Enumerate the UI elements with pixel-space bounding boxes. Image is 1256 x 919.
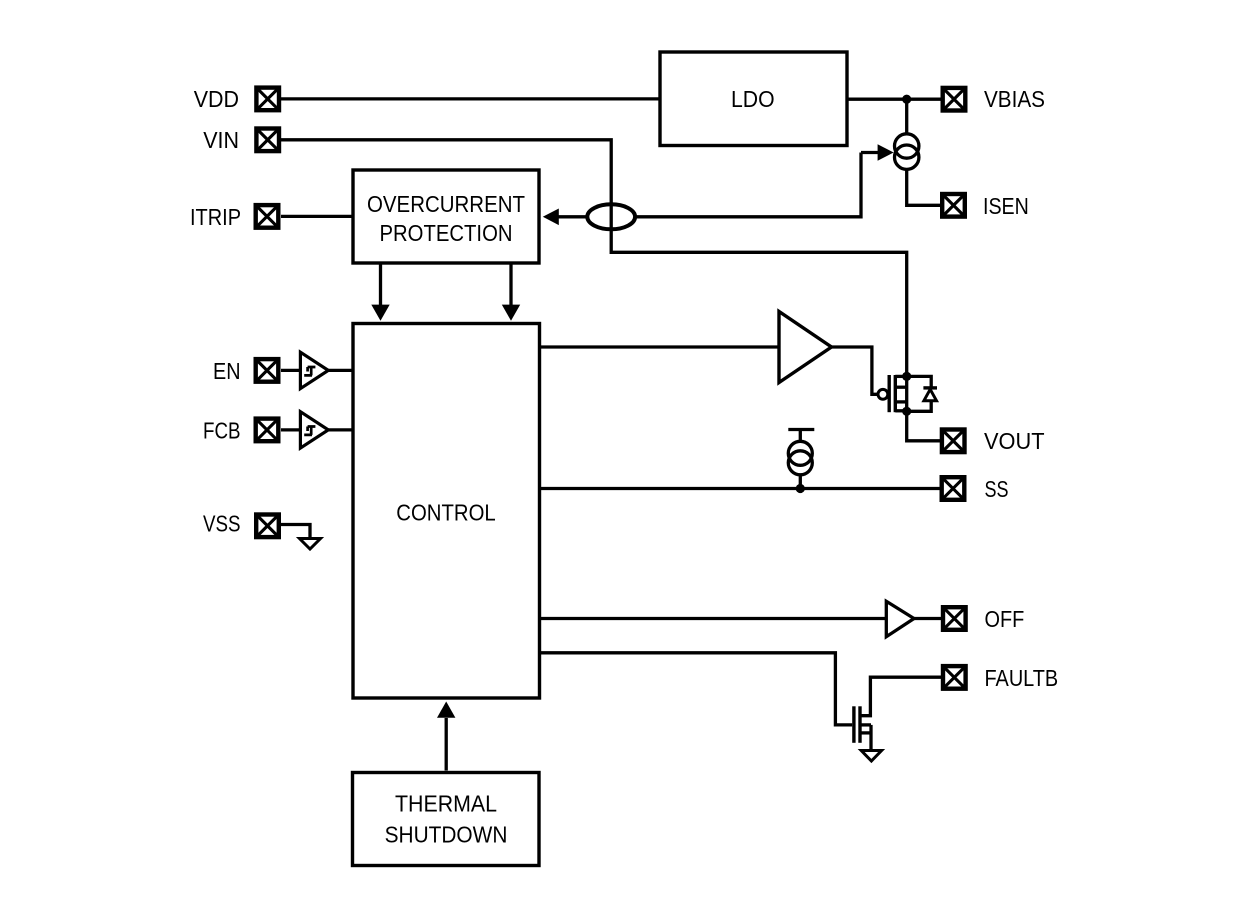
svg-text:SHUTDOWN: SHUTDOWN xyxy=(385,821,508,847)
svg-text:CONTROL: CONTROL xyxy=(396,500,496,526)
svg-text:VIN: VIN xyxy=(203,127,239,153)
svg-text:LDO: LDO xyxy=(731,86,775,112)
svg-text:VSS: VSS xyxy=(203,511,241,537)
svg-text:THERMAL: THERMAL xyxy=(395,790,497,816)
svg-text:OVERCURRENT: OVERCURRENT xyxy=(367,191,525,217)
svg-text:OFF: OFF xyxy=(985,606,1025,632)
svg-text:ITRIP: ITRIP xyxy=(190,204,241,230)
svg-text:ISEN: ISEN xyxy=(983,193,1029,219)
svg-text:VOUT: VOUT xyxy=(984,428,1045,454)
svg-text:SS: SS xyxy=(985,476,1009,502)
svg-text:FAULTB: FAULTB xyxy=(985,665,1059,691)
svg-text:VDD: VDD xyxy=(194,86,239,112)
svg-text:EN: EN xyxy=(213,358,241,384)
svg-text:FCB: FCB xyxy=(203,417,241,443)
svg-text:PROTECTION: PROTECTION xyxy=(380,220,513,246)
svg-text:VBIAS: VBIAS xyxy=(984,86,1045,112)
